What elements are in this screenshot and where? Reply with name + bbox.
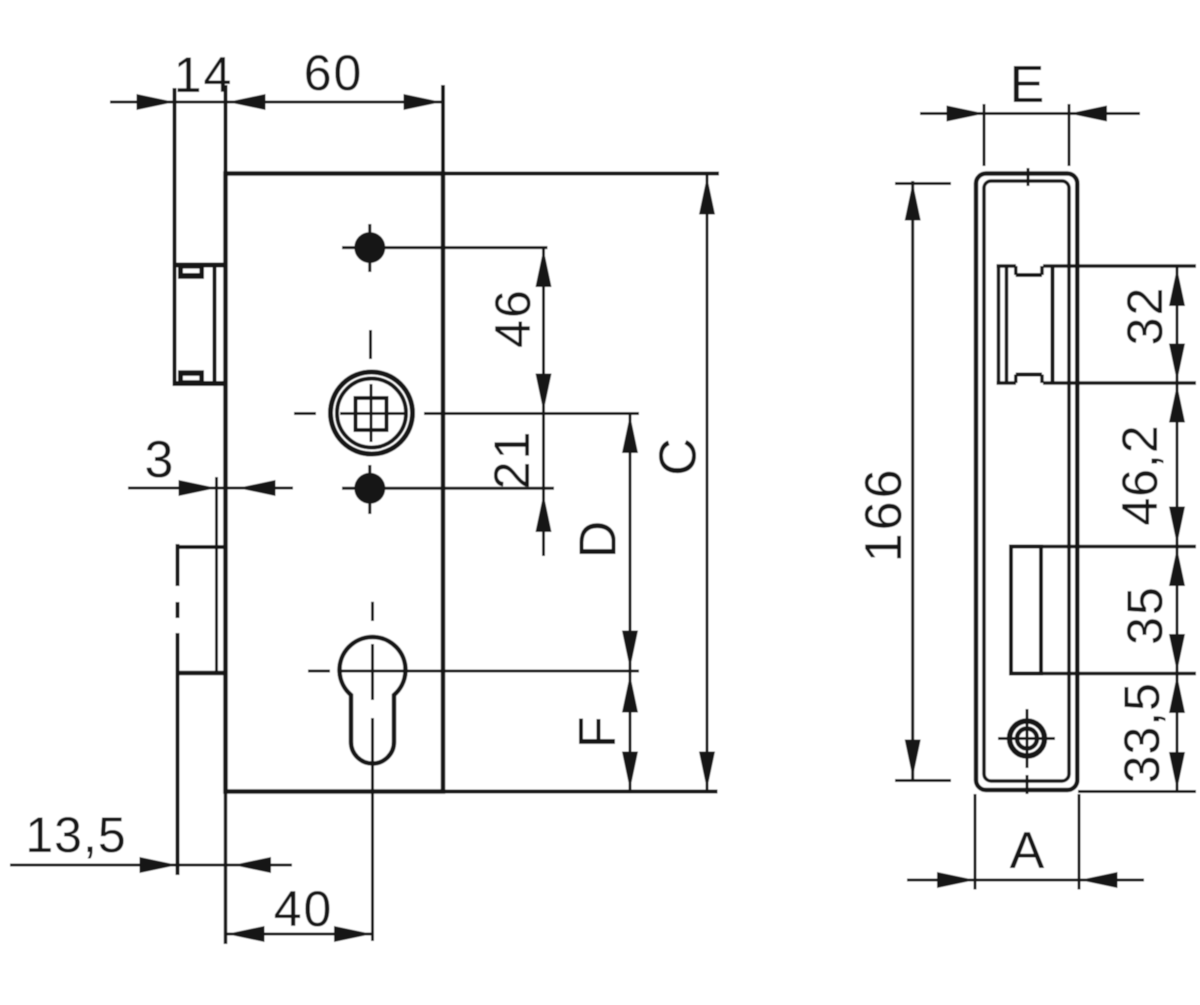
svg-text:E: E bbox=[1010, 56, 1046, 114]
svg-text:166: 166 bbox=[855, 467, 913, 563]
svg-text:33,5: 33,5 bbox=[1114, 682, 1170, 783]
svg-text:40: 40 bbox=[274, 881, 334, 937]
svg-text:3: 3 bbox=[145, 431, 175, 489]
svg-text:46: 46 bbox=[485, 288, 541, 348]
svg-text:A: A bbox=[1010, 822, 1046, 880]
svg-text:60: 60 bbox=[304, 45, 364, 101]
svg-text:14: 14 bbox=[174, 47, 234, 103]
svg-text:13,5: 13,5 bbox=[25, 807, 126, 863]
svg-text:C: C bbox=[650, 437, 708, 476]
svg-text:F: F bbox=[569, 715, 627, 748]
svg-text:21: 21 bbox=[484, 430, 540, 490]
svg-text:46,2: 46,2 bbox=[1112, 424, 1168, 525]
svg-text:32: 32 bbox=[1117, 286, 1173, 346]
svg-text:35: 35 bbox=[1117, 585, 1173, 645]
svg-text:D: D bbox=[570, 520, 628, 559]
